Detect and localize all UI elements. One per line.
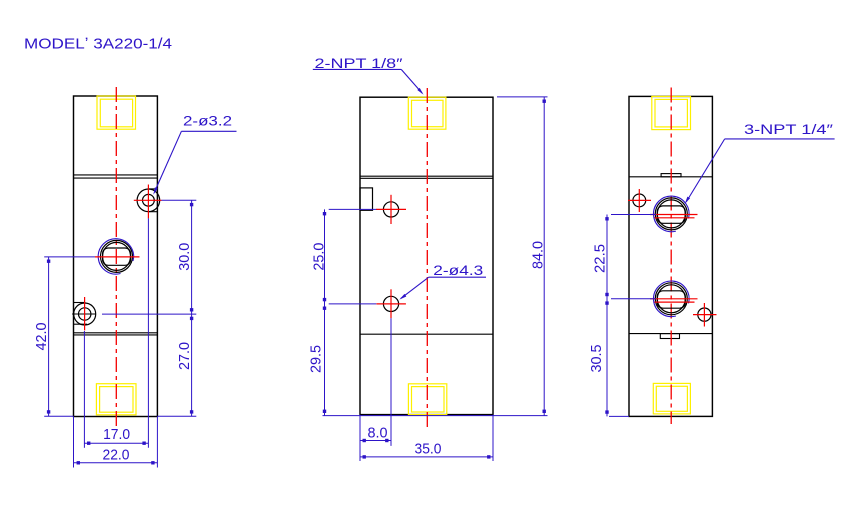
dimension 17.0 (left view) xyxy=(147,218,149,447)
svg-text:3-NPT 1/4″: 3-NPT 1/4″ xyxy=(744,121,833,137)
right view top port (yellow) xyxy=(652,96,691,129)
dimension 22.5 (right view) xyxy=(611,214,656,216)
right view body outline xyxy=(629,96,712,416)
left view body outline xyxy=(74,96,158,417)
right view bottom port (yellow) xyxy=(653,383,690,414)
svg-text:MODELʼ 3A220-1/4: MODELʼ 3A220-1/4 xyxy=(24,36,172,53)
middle view lower hole 4.3 xyxy=(383,296,398,311)
svg-text:30.0: 30.0 xyxy=(176,243,193,271)
left view vertical centerline xyxy=(115,87,117,426)
dimension 25.0 (middle view) xyxy=(329,208,377,210)
dimension 84.0 (middle view) xyxy=(497,96,548,98)
middle view body outline xyxy=(360,97,493,414)
svg-text:42.0: 42.0 xyxy=(33,323,50,351)
svg-text:84.0: 84.0 xyxy=(529,241,546,269)
left view bottom mounting hole 3.2 xyxy=(74,303,96,325)
middle view vertical centerline xyxy=(426,88,428,427)
svg-text:35.0: 35.0 xyxy=(415,440,442,457)
dimension 30.0 (left view) xyxy=(162,199,197,201)
dimension 35.0 (middle view) xyxy=(492,415,494,461)
middle view bottom port (yellow) xyxy=(408,384,446,415)
left view upper divider lines xyxy=(74,174,158,176)
svg-text:2-ø3.2: 2-ø3.2 xyxy=(183,113,232,129)
dimension 30.5 (right view) xyxy=(609,415,629,417)
left view lower divider lines xyxy=(74,332,158,334)
right view lower divider line xyxy=(629,333,712,335)
svg-text:25.0: 25.0 xyxy=(310,243,327,271)
right view lower tab xyxy=(660,334,679,339)
left view bottom port (yellow) xyxy=(96,384,136,415)
svg-text:8.0: 8.0 xyxy=(368,424,388,441)
right view upper tab xyxy=(661,174,681,177)
right view lower bolt hole xyxy=(698,308,711,321)
right view upper NPT port circle xyxy=(655,198,687,230)
svg-text:22.0: 22.0 xyxy=(103,447,130,464)
left view top port (yellow) xyxy=(97,96,136,129)
right view vertical centerline xyxy=(670,88,672,425)
middle view upper divider lines xyxy=(360,175,493,177)
svg-text:29.5: 29.5 xyxy=(307,345,324,373)
right view lower NPT port circle xyxy=(655,283,687,315)
middle view upper hole 4.3 xyxy=(383,202,398,217)
dimension 8.0 (middle view) xyxy=(390,318,392,446)
dimension 42.0 (left view) xyxy=(44,256,95,258)
dimension 22.0 (left view) xyxy=(73,417,75,468)
svg-text:30.5: 30.5 xyxy=(588,345,605,373)
svg-text:17.0: 17.0 xyxy=(103,426,130,443)
left view middle port hole xyxy=(101,240,133,272)
middle view top port (yellow) xyxy=(408,97,446,129)
left view top mounting hole 3.2 xyxy=(137,189,160,212)
middle view lower divider line xyxy=(360,333,493,335)
middle view side notch xyxy=(360,188,373,210)
svg-text:22.5: 22.5 xyxy=(591,244,608,273)
svg-text:27.0: 27.0 xyxy=(176,342,193,370)
right view upper bolt hole xyxy=(633,194,646,207)
right view upper divider line xyxy=(629,176,712,178)
dimension 27.0 (left view) xyxy=(157,415,196,417)
svg-text:2-NPT 1/8″: 2-NPT 1/8″ xyxy=(315,55,403,71)
svg-text:2-ø4.3: 2-ø4.3 xyxy=(433,262,483,278)
dimension 29.5 (middle view) xyxy=(323,415,548,417)
